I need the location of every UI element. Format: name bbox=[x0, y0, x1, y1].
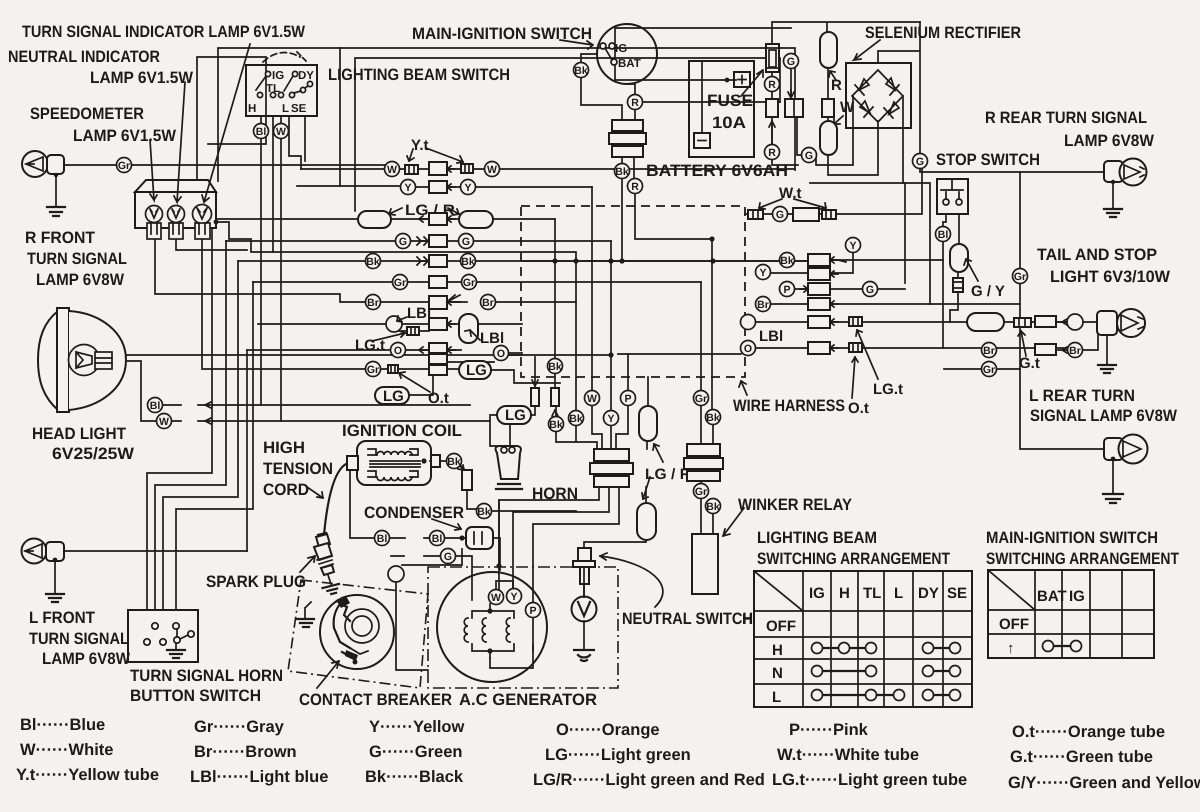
wire: front bulb feed vertical bbox=[246, 350, 248, 551]
wire: headlight Bl row bbox=[162, 402, 470, 408]
svg-text:Bk: Bk bbox=[548, 361, 562, 373]
svg-text:Y: Y bbox=[510, 591, 517, 603]
wire: lighting switch H to W row bbox=[289, 116, 305, 169]
svg-text:SWITCHING ARRANGEMENT: SWITCHING ARRANGEMENT bbox=[986, 550, 1179, 568]
svg-text:TURN SIGNAL: TURN SIGNAL bbox=[29, 630, 129, 648]
component: generator circle bbox=[437, 572, 547, 682]
component: LG.t tube right bbox=[849, 317, 862, 326]
svg-text:W: W bbox=[587, 393, 597, 405]
arrow: cord label bbox=[307, 487, 323, 498]
component: mid connector rect 1 bbox=[531, 388, 539, 406]
svg-text:H: H bbox=[839, 585, 850, 602]
component: LG pill above horn bbox=[497, 406, 531, 424]
wire: tail row left bbox=[862, 321, 1096, 323]
component: indicator lamp box 3-bulbs bbox=[135, 180, 218, 239]
arrow: O.t label left bbox=[399, 372, 430, 392]
wire: W.t row bbox=[745, 165, 922, 214]
wire: ignition switch left drop bbox=[581, 54, 622, 120]
wire: battery R bus to right bbox=[810, 183, 905, 283]
wire: rectifier top out bbox=[878, 22, 920, 154]
svg-text:LBl······Light blue: LBl······Light blue bbox=[190, 768, 328, 786]
svg-text:W: W bbox=[159, 416, 169, 428]
component: O.t tube left bbox=[388, 365, 398, 373]
wire: inner loop 2 bbox=[355, 58, 780, 211]
wire: LBl row right-column bbox=[755, 321, 849, 323]
wire: row Bk bbox=[238, 260, 943, 261]
arrows: Y.t label bbox=[407, 149, 414, 161]
arrow: fuse label bbox=[741, 70, 763, 96]
svg-text:Gr: Gr bbox=[983, 364, 995, 376]
svg-text:SPEEDOMETER: SPEEDOMETER bbox=[30, 105, 144, 123]
svg-text:Br: Br bbox=[983, 345, 995, 357]
svg-text:Y: Y bbox=[404, 182, 411, 194]
svg-text:H: H bbox=[742, 611, 753, 628]
svg-text:NEUTRAL INDICATOR: NEUTRAL INDICATOR bbox=[8, 48, 160, 66]
component: battery box bbox=[689, 61, 754, 157]
component: LG/R pill bottom bbox=[637, 503, 656, 540]
svg-text:SELENIUM RECTIFIER: SELENIUM RECTIFIER bbox=[865, 24, 1021, 42]
svg-text:6V25/25W: 6V25/25W bbox=[52, 445, 134, 463]
wire: P row right-column bbox=[794, 288, 905, 290]
svg-text:WIRE HARNESS: WIRE HARNESS bbox=[733, 397, 845, 415]
svg-text:W: W bbox=[387, 164, 397, 176]
component: W tube left rows bbox=[405, 165, 418, 174]
svg-text:LG: LG bbox=[383, 388, 404, 405]
arrow: O.t right label bbox=[852, 357, 858, 398]
svg-text:Br: Br bbox=[482, 297, 494, 309]
wire: LG.t tube row bbox=[401, 330, 429, 332]
svg-text:IG: IG bbox=[809, 585, 825, 602]
arrow: label to bulb3 bbox=[202, 44, 250, 202]
lamp: L front turn signal bbox=[22, 539, 65, 603]
svg-text:N: N bbox=[772, 665, 783, 682]
svg-text:DY: DY bbox=[298, 70, 314, 82]
svg-text:LIGHTING BEAM: LIGHTING BEAM bbox=[757, 529, 877, 547]
arrow: W label to pill2 bbox=[834, 116, 843, 124]
svg-text:LG.t······Light green tube: LG.t······Light green tube bbox=[772, 771, 967, 789]
svg-text:G: G bbox=[866, 284, 874, 296]
table: lighting beam switching arrangement bbox=[742, 571, 972, 707]
component: right column rects bbox=[808, 254, 830, 266]
svg-text:L: L bbox=[772, 689, 781, 706]
svg-text:Bk: Bk bbox=[366, 256, 380, 268]
svg-text:Gr: Gr bbox=[118, 160, 130, 172]
wire: fuse chain bbox=[772, 72, 798, 165]
arrows: W.t label bbox=[759, 199, 826, 209]
wire: headlight W row bbox=[171, 418, 490, 424]
svg-text:DY: DY bbox=[918, 585, 939, 602]
component: condenser bbox=[466, 527, 493, 549]
wire: condenser Bl row bbox=[350, 463, 466, 538]
wire: headlight lower feed bend bbox=[111, 361, 157, 421]
svg-text:Gr: Gr bbox=[695, 486, 707, 498]
wire: R right loop bbox=[643, 101, 780, 103]
svg-text:SE: SE bbox=[947, 585, 967, 602]
arrow: neutral switch label curve bbox=[600, 553, 663, 607]
component: connector rect W bbox=[822, 99, 834, 117]
arrow: contact breaker label bbox=[317, 661, 339, 688]
component: small circle mid bbox=[388, 566, 404, 582]
svg-text:H: H bbox=[248, 103, 256, 115]
wire: stop switch right leg bbox=[950, 214, 967, 322]
svg-text:10A: 10A bbox=[712, 114, 746, 132]
wire label circles bbox=[117, 158, 132, 173]
svg-text:O: O bbox=[497, 348, 505, 360]
svg-text:HEAD LIGHT: HEAD LIGHT bbox=[32, 425, 126, 443]
svg-text:LG.t: LG.t bbox=[873, 381, 903, 398]
svg-text:OFF: OFF bbox=[999, 616, 1029, 633]
svg-text:Bl: Bl bbox=[150, 400, 161, 412]
component: LG/R pill top bbox=[639, 406, 657, 441]
svg-text:SWITCHING ARRANGEMENT: SWITCHING ARRANGEMENT bbox=[757, 550, 950, 568]
component: O.t tube right bbox=[849, 343, 862, 352]
component: headlight bbox=[38, 308, 126, 412]
arrows: right column bbox=[830, 257, 846, 263]
wire: top loop inner bbox=[197, 57, 266, 181]
wire: harness row 261 inside bbox=[522, 260, 808, 262]
wire: O row right-column bbox=[755, 347, 943, 349]
svg-text:Bl: Bl bbox=[432, 533, 443, 545]
svg-text:IG: IG bbox=[272, 70, 284, 82]
component: contact breaker assembly bbox=[288, 580, 428, 688]
arrow: into coil connector bbox=[458, 465, 464, 470]
svg-text:Y······Yellow: Y······Yellow bbox=[369, 718, 464, 736]
svg-text:W: W bbox=[276, 126, 286, 138]
wire: Gr tail row bbox=[944, 368, 1020, 370]
svg-text:Bk······Black: Bk······Black bbox=[365, 768, 464, 786]
component: winker relay stack bbox=[684, 444, 723, 594]
svg-text:Gr: Gr bbox=[463, 277, 475, 289]
wire: rectifier right down bbox=[903, 96, 930, 304]
component: LG.t tube left bbox=[407, 327, 419, 335]
wire: row W bbox=[301, 168, 795, 170]
component: LG pill bottom left bbox=[375, 387, 409, 405]
arrow: selenium label bbox=[854, 40, 880, 60]
svg-text:O.t: O.t bbox=[848, 400, 869, 417]
svg-text:L REAR TURN: L REAR TURN bbox=[1029, 387, 1135, 405]
svg-text:Br: Br bbox=[757, 299, 769, 311]
svg-text:TURN SIGNAL HORN: TURN SIGNAL HORN bbox=[130, 667, 283, 685]
component: harness right tubes W.t bbox=[748, 210, 763, 219]
wire: left bundle steps to horn switch bbox=[147, 219, 212, 610]
wire: neutral switch drop bbox=[583, 584, 585, 649]
component: spark plug bbox=[314, 533, 341, 596]
arrow: G down bbox=[788, 90, 794, 98]
component: pill R bottom bbox=[820, 121, 837, 155]
svg-text:Bk: Bk bbox=[447, 456, 461, 468]
lamp: R rear turn signal bbox=[1104, 159, 1147, 218]
svg-text:LG: LG bbox=[505, 407, 526, 424]
component: wire harness dashed box bbox=[521, 206, 745, 377]
component: connector rect R bbox=[766, 99, 778, 117]
svg-text:L: L bbox=[282, 103, 289, 115]
svg-text:IGNITION COIL: IGNITION COIL bbox=[342, 422, 462, 440]
svg-text:G.t······Green tube: G.t······Green tube bbox=[1010, 748, 1153, 766]
wire: winker drops bbox=[701, 239, 713, 534]
svg-text:LG······Light green: LG······Light green bbox=[545, 746, 691, 764]
svg-text:O: O bbox=[394, 345, 402, 357]
svg-text:G······Green: G······Green bbox=[369, 743, 463, 761]
svg-text:LAMP 6V8W: LAMP 6V8W bbox=[42, 650, 130, 668]
svg-text:LBl: LBl bbox=[480, 330, 504, 347]
svg-text:Gr: Gr bbox=[1014, 271, 1026, 283]
arrow: G.t label bbox=[1018, 331, 1026, 356]
wire: Bk rect feed arrow bbox=[552, 410, 558, 416]
arrow: condenser label bbox=[432, 519, 461, 530]
contact bars row N bbox=[817, 670, 955, 672]
svg-text:G: G bbox=[916, 156, 924, 168]
svg-text:Gr: Gr bbox=[695, 393, 707, 405]
wire: row LG/R bbox=[216, 218, 555, 220]
svg-text:Bk: Bk bbox=[706, 412, 720, 424]
svg-text:BAT: BAT bbox=[1037, 588, 1067, 605]
svg-text:TURN SIGNAL: TURN SIGNAL bbox=[27, 250, 127, 268]
arrow: winker relay label bbox=[723, 508, 744, 536]
svg-text:H: H bbox=[772, 642, 783, 659]
wire: stack bottom fans bbox=[499, 487, 599, 589]
svg-text:R: R bbox=[631, 97, 639, 109]
wire: row Y bbox=[297, 186, 592, 187]
arrow: G/Y label bbox=[964, 259, 978, 281]
svg-text:L FRONT: L FRONT bbox=[29, 609, 95, 627]
svg-text:R: R bbox=[768, 147, 776, 159]
arrow: tail rect bbox=[1058, 319, 1067, 325]
arrow: LBl label left bbox=[397, 316, 407, 322]
component: main ignition switch circle bbox=[597, 24, 657, 84]
svg-text:Gr: Gr bbox=[367, 364, 379, 376]
arrow: wire harness label bbox=[739, 381, 747, 395]
svg-text:BAT: BAT bbox=[618, 58, 641, 70]
component: G/Y tube bbox=[953, 278, 963, 292]
wire: speedometer lamp to Gr bbox=[64, 165, 388, 169]
svg-text:W: W bbox=[840, 99, 855, 116]
wire: W mid drop bbox=[592, 187, 602, 449]
svg-text:Bl: Bl bbox=[377, 533, 388, 545]
arrows: LG/R right label bbox=[653, 444, 663, 462]
svg-text:G: G bbox=[805, 150, 813, 162]
svg-text:W: W bbox=[491, 592, 501, 604]
contact bars row L bbox=[817, 694, 955, 696]
wire: R pill chain bbox=[828, 67, 878, 175]
svg-text:G: G bbox=[462, 236, 470, 248]
svg-text:Y: Y bbox=[759, 267, 766, 279]
svg-text:L: L bbox=[894, 585, 903, 602]
svg-text:↑: ↑ bbox=[1007, 640, 1015, 657]
wire: G stop to R rear lamp bbox=[920, 168, 1104, 172]
wire: high tension cord bbox=[324, 463, 348, 535]
arrow: LG.t right label bbox=[856, 330, 878, 379]
svg-text:LAMP 6V8W: LAMP 6V8W bbox=[1064, 132, 1154, 150]
wire: G row condenser bbox=[391, 556, 472, 600]
wire: harness verticals bbox=[555, 219, 648, 449]
component: A.C generator dashed box bbox=[428, 567, 618, 688]
svg-text:LAMP 6V1.5W: LAMP 6V1.5W bbox=[90, 69, 193, 87]
svg-text:G / Y: G / Y bbox=[971, 283, 1005, 300]
component: Br row rect bbox=[1035, 344, 1056, 355]
svg-text:G: G bbox=[776, 209, 784, 221]
component: tail row circle bbox=[1067, 314, 1083, 330]
component: G/Y pill bbox=[950, 244, 968, 272]
wire: row G bbox=[226, 240, 611, 242]
svg-text:R FRONT: R FRONT bbox=[25, 229, 95, 247]
svg-text:R: R bbox=[631, 181, 639, 193]
svg-text:O······Orange: O······Orange bbox=[556, 721, 660, 739]
lamp: L rear turn signal bbox=[1103, 435, 1148, 504]
wire: harness row 357 bbox=[509, 354, 741, 355]
arrow: main ignition label bbox=[560, 40, 593, 49]
svg-text:LG: LG bbox=[466, 362, 487, 379]
svg-text:W: W bbox=[487, 164, 497, 176]
wire: headlight upper feed bbox=[111, 354, 522, 356]
component: ignition switch connector stack bbox=[609, 120, 646, 157]
svg-text:Y.t: Y.t bbox=[411, 137, 429, 154]
component: mid connector rect 2 bbox=[551, 388, 559, 406]
wire: G chain bbox=[791, 68, 853, 165]
component: middle connector stack bbox=[590, 449, 633, 487]
svg-text:TENSION: TENSION bbox=[263, 460, 333, 478]
contact bars row H bbox=[817, 647, 955, 649]
arrow: spark plug label bbox=[300, 556, 315, 572]
svg-text:LBl: LBl bbox=[407, 305, 431, 322]
wire: generator feeds top bbox=[498, 500, 500, 566]
svg-text:CONTACT BREAKER: CONTACT BREAKER bbox=[299, 691, 452, 709]
svg-text:BATTERY 6V6AH: BATTERY 6V6AH bbox=[646, 162, 788, 180]
svg-text:P: P bbox=[529, 605, 536, 617]
arrow: label to bulb1 bbox=[150, 140, 157, 200]
svg-text:IG: IG bbox=[1069, 588, 1085, 605]
wire: vertical from loop to Y row bbox=[339, 48, 341, 186]
svg-text:G: G bbox=[399, 236, 407, 248]
component: selenium rectifier bbox=[846, 63, 911, 128]
arrow: label to bulb2 bbox=[174, 82, 185, 202]
wire: ignition coil right chain bbox=[430, 461, 576, 511]
arrow: br rect bbox=[1058, 347, 1067, 353]
svg-text:O.t······Orange tube: O.t······Orange tube bbox=[1012, 723, 1165, 741]
svg-text:TAIL AND STOP: TAIL AND STOP bbox=[1037, 246, 1157, 264]
wire: Y right-column drop bbox=[770, 252, 853, 273]
svg-text:BUTTON SWITCH: BUTTON SWITCH bbox=[130, 687, 261, 705]
wire: condenser drop to circle bbox=[396, 549, 462, 670]
svg-text:Y: Y bbox=[464, 182, 471, 194]
component: pill R top bbox=[820, 32, 837, 68]
svg-text:Bk: Bk bbox=[549, 419, 563, 431]
svg-text:STOP SWITCH: STOP SWITCH bbox=[936, 151, 1040, 169]
component: harness right rect W.t bbox=[793, 208, 819, 221]
arrow: LBl right label bbox=[465, 330, 480, 340]
svg-text:Gr: Gr bbox=[394, 277, 406, 289]
svg-text:Bl: Bl bbox=[256, 126, 267, 138]
svg-text:Bk: Bk bbox=[780, 255, 794, 267]
svg-text:MAIN-IGNITION SWITCH: MAIN-IGNITION SWITCH bbox=[986, 529, 1158, 547]
svg-text:Bk: Bk bbox=[706, 501, 720, 513]
component: horn bbox=[496, 446, 522, 489]
svg-text:Bk: Bk bbox=[569, 413, 583, 425]
svg-text:NEUTRAL SWITCH: NEUTRAL SWITCH bbox=[622, 610, 753, 628]
svg-text:SE: SE bbox=[291, 103, 307, 115]
component: LG/R pills left row bbox=[358, 211, 391, 228]
wire: stop switch left leg bbox=[943, 214, 1098, 350]
arrows: left column connectors bbox=[417, 237, 428, 245]
svg-text:Y: Y bbox=[607, 413, 614, 425]
wire: row Gr2 bbox=[202, 240, 560, 383]
svg-text:A.C GENERATOR: A.C GENERATOR bbox=[459, 691, 597, 709]
wire: top loop outer bbox=[218, 48, 795, 181]
svg-text:OFF: OFF bbox=[766, 618, 796, 635]
svg-text:O: O bbox=[744, 343, 752, 355]
wire: row Gr bbox=[253, 281, 701, 283]
svg-text:LBl: LBl bbox=[759, 328, 783, 345]
wire: LG right pill to horn bbox=[490, 406, 535, 446]
svg-text:G.t: G.t bbox=[1019, 355, 1040, 372]
svg-text:Br······Brown: Br······Brown bbox=[194, 743, 297, 761]
svg-text:LG/R······Light green and Red: LG/R······Light green and Red bbox=[533, 771, 765, 789]
svg-text:Y.t······Yellow tube: Y.t······Yellow tube bbox=[16, 766, 159, 784]
svg-text:CONDENSER: CONDENSER bbox=[364, 504, 464, 522]
arrow: LG.t label left bbox=[372, 331, 405, 341]
svg-text:HIGH: HIGH bbox=[263, 439, 305, 457]
wire: row LBl bbox=[258, 324, 522, 330]
lamp: tail and stop light bbox=[1097, 309, 1145, 373]
component: LG pill right row bbox=[459, 361, 491, 379]
svg-text:Bl······Blue: Bl······Blue bbox=[20, 716, 105, 734]
wire: Bk mid drop bbox=[556, 404, 597, 449]
component: LBl left circle bbox=[386, 316, 402, 332]
arrow: R up bbox=[769, 121, 775, 150]
svg-text:Gr······Gray: Gr······Gray bbox=[194, 718, 285, 736]
svg-text:P: P bbox=[783, 284, 790, 296]
svg-text:TL: TL bbox=[863, 585, 881, 602]
component: connector rects left column bbox=[429, 162, 447, 175]
svg-text:Br: Br bbox=[367, 297, 379, 309]
junction dots bbox=[552, 258, 557, 263]
svg-text:R REAR TURN SIGNAL: R REAR TURN SIGNAL bbox=[985, 109, 1147, 127]
wire: row Br bbox=[155, 240, 576, 302]
svg-text:Y: Y bbox=[849, 240, 856, 252]
wire: L front bulb row bbox=[64, 550, 247, 552]
svg-text:G/Y······Green and Yellow: G/Y······Green and Yellow bbox=[1008, 774, 1200, 792]
svg-text:R: R bbox=[768, 79, 776, 91]
lamp: R front turn signal (top-left bulb) bbox=[22, 151, 65, 216]
svg-text:CORD: CORD bbox=[263, 481, 309, 499]
component: tail row pill bbox=[967, 313, 1004, 331]
wire: R rear drop bus bbox=[1020, 172, 1104, 449]
svg-text:LAMP 6V1.5W: LAMP 6V1.5W bbox=[73, 127, 176, 145]
component: coil connector rect bbox=[462, 470, 472, 490]
component: LBl right oval bbox=[459, 314, 478, 343]
wire: LG/R pill2 chain bbox=[584, 441, 647, 549]
wire: lighting switch verticals down bbox=[261, 116, 281, 421]
wire: Br row right-column bbox=[770, 303, 930, 305]
component: G.t tube bbox=[1014, 318, 1031, 327]
table: main-ignition switching arrangement bbox=[988, 570, 1154, 658]
wire: indicator socket 2 down bbox=[176, 240, 247, 250]
svg-text:Bk: Bk bbox=[461, 256, 475, 268]
svg-text:G: G bbox=[787, 56, 795, 68]
wire: row 258 right bbox=[830, 259, 836, 261]
svg-text:SPARK PLUG: SPARK PLUG bbox=[206, 573, 306, 591]
svg-text:Br: Br bbox=[1069, 345, 1081, 357]
svg-text:TURN SIGNAL INDICATOR LAMP 6V1: TURN SIGNAL INDICATOR LAMP 6V1.5W bbox=[22, 23, 305, 41]
svg-text:Bk: Bk bbox=[477, 506, 491, 518]
svg-text:W.t······White tube: W.t······White tube bbox=[777, 746, 919, 764]
wire: indicator box staircase bbox=[216, 222, 576, 411]
component: fuse cartridge bbox=[766, 44, 779, 72]
wire: ignition circle bottom to R bbox=[627, 84, 635, 120]
component: stop switch box bbox=[937, 179, 968, 214]
svg-text:IG: IG bbox=[615, 43, 627, 55]
svg-text:FUSE: FUSE bbox=[707, 92, 753, 110]
wire: battery plus feed bbox=[615, 22, 920, 80]
